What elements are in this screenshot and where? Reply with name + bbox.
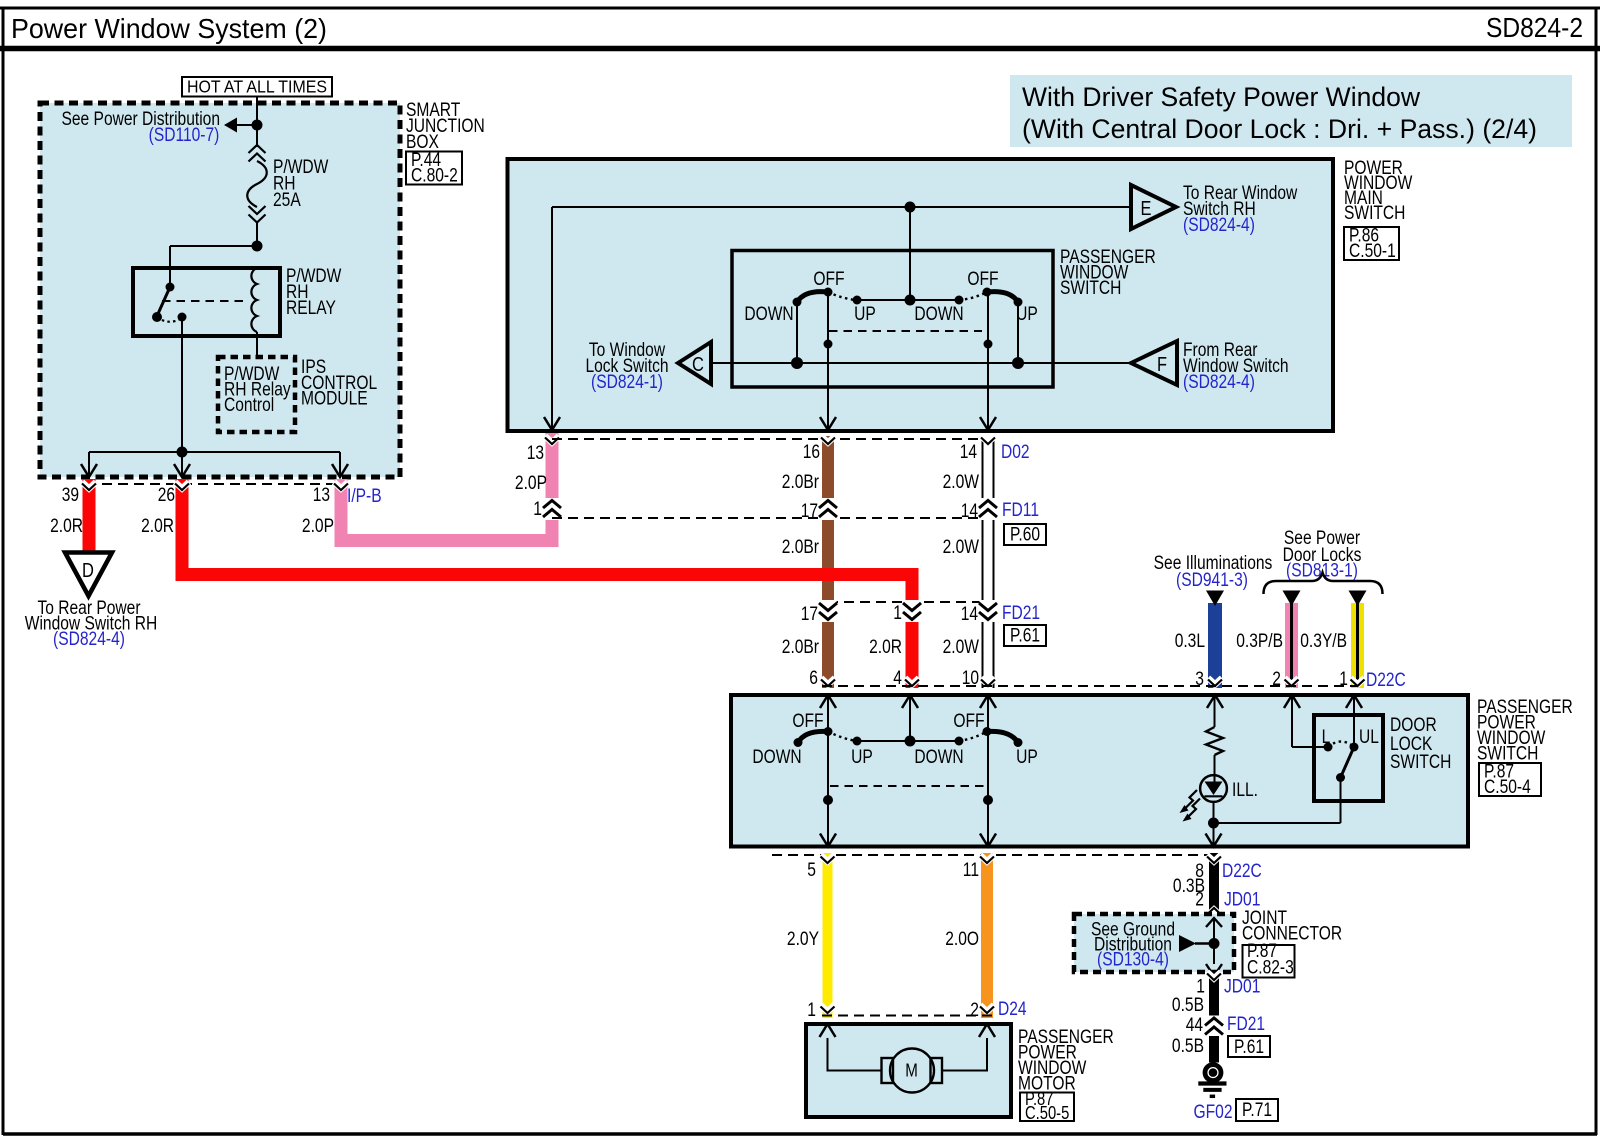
door lock switch bbox=[1314, 715, 1451, 801]
svg-text:(SD110-7): (SD110-7) bbox=[149, 125, 220, 146]
svg-text:2.0P: 2.0P bbox=[302, 516, 334, 537]
svg-text:2.0P: 2.0P bbox=[515, 473, 547, 494]
svg-text:2: 2 bbox=[1195, 890, 1204, 911]
variant note box bbox=[1010, 75, 1572, 147]
joint connector box bbox=[1074, 908, 1342, 979]
wire 0.5B (FD21 to ground) bbox=[1172, 1014, 1270, 1063]
passenger window switch (inner box) bbox=[732, 247, 1156, 387]
wire 2.0O (11 to 2) bbox=[945, 853, 994, 1018]
wire 0.3P/B door lock bbox=[1236, 591, 1300, 689]
upper switch bus bbox=[853, 295, 964, 326]
svg-text:0.5B: 0.5B bbox=[1172, 995, 1204, 1016]
lower switch linkage (dashed) bbox=[830, 785, 986, 787]
wire 0.3Y/B door unlock bbox=[1300, 591, 1366, 689]
svg-text:C.82-3: C.82-3 bbox=[1247, 958, 1294, 979]
svg-text:UL: UL bbox=[1359, 727, 1379, 748]
svg-text:2.0O: 2.0O bbox=[945, 929, 979, 950]
svg-text:1: 1 bbox=[533, 499, 542, 520]
svg-text:SWITCH: SWITCH bbox=[1060, 278, 1121, 299]
svg-text:I/P-B: I/P-B bbox=[347, 486, 382, 507]
wire pin14 internal bbox=[984, 292, 993, 429]
wire 2.0W (14/14/10) bbox=[943, 436, 997, 688]
passenger power window motor box bbox=[806, 1024, 1114, 1123]
label HOT AT ALL TIMES bbox=[182, 77, 332, 97]
svg-text:P.61: P.61 bbox=[1010, 626, 1040, 647]
pin 13 arrow (I/P-B) bbox=[332, 464, 348, 477]
svg-text:14: 14 bbox=[961, 604, 979, 625]
svg-text:6: 6 bbox=[809, 668, 818, 689]
wire door lock L to pin2 bbox=[1292, 696, 1328, 747]
pin 4 arrow bbox=[902, 695, 918, 708]
svg-text:UP: UP bbox=[1016, 747, 1038, 768]
wire pin4 internal bbox=[909, 696, 911, 741]
svg-text:SWITCH: SWITCH bbox=[1344, 203, 1405, 224]
svg-text:FD21: FD21 bbox=[1002, 603, 1040, 624]
wire 2.0Y (5 to 1) bbox=[787, 853, 835, 1018]
pin 3 arrow bbox=[1207, 695, 1223, 708]
wire 2.0R pin 39 to D bbox=[50, 479, 96, 552]
wire 0.5B (JD01 to FD21) bbox=[1172, 970, 1261, 1016]
connector I/P-B row bbox=[62, 484, 382, 507]
wire fuse to relay node bbox=[256, 222, 258, 246]
svg-text:GF02: GF02 bbox=[1194, 1102, 1233, 1123]
ground GF02 bbox=[1194, 1065, 1279, 1123]
joint connector JD01 arrow (pin2) bbox=[1206, 918, 1222, 927]
node distribution rail junction bbox=[177, 447, 188, 458]
svg-text:C.50-5: C.50-5 bbox=[1025, 1103, 1069, 1123]
wire junction to fuse bbox=[256, 125, 258, 147]
resistor (illumination) bbox=[1206, 696, 1223, 782]
svg-text:DOWN: DOWN bbox=[752, 747, 801, 768]
svg-text:10: 10 bbox=[962, 668, 979, 689]
node feed to switch bbox=[905, 202, 916, 213]
svg-text:OFF: OFF bbox=[792, 711, 823, 732]
connector D24 row bbox=[807, 999, 1027, 1021]
relay P/WDW RH bbox=[133, 266, 341, 336]
wire relay output down bbox=[181, 317, 183, 452]
svg-text:13: 13 bbox=[313, 485, 330, 506]
wire door lock UL to pin1 bbox=[1353, 696, 1355, 747]
svg-text:RELAY: RELAY bbox=[286, 298, 336, 319]
svg-text:C.50-1: C.50-1 bbox=[1349, 241, 1396, 262]
svg-text:UP: UP bbox=[1016, 304, 1038, 325]
wire feed down to switch bus bbox=[909, 207, 911, 300]
arrow to power distribution bbox=[224, 118, 257, 133]
svg-text:0.3P/B: 0.3P/B bbox=[1236, 631, 1283, 652]
connector FD21 chevron (pin44) bbox=[1207, 1016, 1221, 1037]
svg-text:With Driver Safety Power Windo: With Driver Safety Power Window bbox=[1022, 82, 1420, 112]
svg-text:(SD824-4): (SD824-4) bbox=[1183, 372, 1255, 393]
svg-text:2.0R: 2.0R bbox=[141, 516, 174, 537]
smart junction box label bbox=[406, 100, 485, 187]
svg-text:44: 44 bbox=[1186, 1015, 1204, 1036]
svg-text:2.0W: 2.0W bbox=[943, 637, 979, 658]
wire distribution rail bbox=[89, 452, 340, 476]
svg-text:(SD824-1): (SD824-1) bbox=[591, 372, 663, 393]
passenger power window switch box bbox=[731, 695, 1573, 847]
svg-text:0.5B: 0.5B bbox=[1172, 1036, 1204, 1057]
svg-text:2: 2 bbox=[1272, 669, 1281, 690]
svg-text:2.0Br: 2.0Br bbox=[782, 472, 820, 493]
svg-text:MODULE: MODULE bbox=[301, 389, 368, 410]
wire window lock line (C to F) bbox=[711, 302, 1131, 369]
connector D22C row (lower) bbox=[772, 855, 1262, 882]
lower switch left wiper (OFF/DOWN) bbox=[752, 711, 873, 768]
svg-text:25A: 25A bbox=[273, 190, 301, 211]
wire 2.0P (I/P-B 13 to main switch 13) bbox=[302, 430, 561, 541]
svg-text:OFF: OFF bbox=[813, 269, 844, 290]
connector D22C row (upper) bbox=[809, 668, 1406, 691]
svg-text:11: 11 bbox=[963, 860, 979, 881]
svg-text:16: 16 bbox=[803, 442, 820, 463]
switch linkage (dashed) bbox=[829, 330, 982, 332]
illumination lamp ILL bbox=[1180, 775, 1259, 823]
pin 5 arrow bbox=[820, 834, 836, 847]
svg-text:F: F bbox=[1157, 354, 1167, 376]
svg-text:D22C: D22C bbox=[1222, 861, 1262, 882]
ips control module (dashed) bbox=[218, 357, 377, 432]
svg-text:2.0R: 2.0R bbox=[869, 637, 902, 658]
svg-text:(SD941-3): (SD941-3) bbox=[1176, 570, 1248, 591]
note see power door locks bbox=[1283, 528, 1362, 582]
svg-text:D22C: D22C bbox=[1366, 670, 1406, 691]
svg-text:39: 39 bbox=[62, 485, 79, 506]
fuse P/WDW RH 25A bbox=[247, 145, 328, 223]
svg-text:OFF: OFF bbox=[967, 269, 998, 290]
motor M bbox=[882, 1049, 943, 1093]
svg-text:FD21: FD21 bbox=[1227, 1014, 1265, 1035]
svg-text:14: 14 bbox=[961, 501, 979, 522]
wire 0.3B (8 to JD01) bbox=[1173, 853, 1261, 916]
lower switch bus bbox=[853, 736, 964, 769]
wire 2.0Br (16/17/6) bbox=[782, 436, 837, 688]
svg-text:C.50-4: C.50-4 bbox=[1484, 777, 1531, 798]
svg-text:D: D bbox=[82, 560, 94, 582]
svg-text:0.3L: 0.3L bbox=[1175, 631, 1205, 652]
wire 2.0R pin 26 to FD21 bbox=[141, 479, 921, 688]
pin 16 arrow (main switch) bbox=[820, 417, 836, 430]
motor pin 2 arrow bbox=[979, 1024, 995, 1037]
connector FD21 row bbox=[801, 602, 1046, 647]
pin 39 arrow bbox=[81, 464, 97, 477]
svg-text:JD01: JD01 bbox=[1224, 977, 1260, 998]
svg-text:(SD130-4): (SD130-4) bbox=[1097, 950, 1169, 971]
wire lamp to pin8 bbox=[1213, 823, 1215, 845]
node power feed junction bbox=[252, 120, 263, 131]
svg-text:P.71: P.71 bbox=[1242, 1100, 1272, 1121]
off-page connector D to rear power window switch RH bbox=[25, 553, 158, 651]
svg-text:13: 13 bbox=[527, 443, 544, 464]
off-page connector C to window lock switch bbox=[585, 340, 711, 393]
node lamp output junction bbox=[1208, 818, 1219, 829]
svg-text:D02: D02 bbox=[1001, 442, 1030, 463]
pin 11 arrow bbox=[980, 834, 996, 847]
upper switch left wiper (OFF/DOWN) bbox=[744, 269, 876, 325]
svg-text:UP: UP bbox=[854, 304, 876, 325]
wire relay coil to ips module bbox=[256, 332, 258, 357]
off-page connector E to rear window switch RH bbox=[1131, 183, 1298, 236]
wire pin10-pin11 internal bbox=[983, 696, 993, 845]
svg-text:1: 1 bbox=[1339, 669, 1348, 690]
pin 26 arrow bbox=[174, 464, 190, 477]
svg-text:SD824-2: SD824-2 bbox=[1486, 12, 1583, 43]
pin 2 arrow bbox=[1284, 695, 1300, 708]
svg-text:2.0W: 2.0W bbox=[943, 537, 979, 558]
node fuse output bbox=[252, 241, 263, 252]
off-page connector F from rear window switch bbox=[1131, 340, 1289, 393]
wire inside joint connector bbox=[1213, 918, 1215, 964]
svg-text:2.0Y: 2.0Y bbox=[787, 929, 819, 950]
svg-text:SWITCH: SWITCH bbox=[1390, 752, 1451, 773]
svg-text:1: 1 bbox=[893, 603, 902, 624]
svg-text:4: 4 bbox=[893, 668, 902, 689]
svg-text:2.0Br: 2.0Br bbox=[782, 637, 820, 658]
connector FD11 row bbox=[533, 499, 1046, 546]
svg-text:ILL.: ILL. bbox=[1232, 780, 1258, 801]
lower switch right wiper (OFF/UP) bbox=[953, 711, 1037, 768]
svg-text:DOOR: DOOR bbox=[1390, 715, 1437, 736]
wire pin6-pin5 internal bbox=[823, 696, 833, 845]
svg-text:17: 17 bbox=[801, 604, 818, 625]
svg-text:2.0Br: 2.0Br bbox=[782, 537, 820, 558]
wire from hot feed down bbox=[256, 97, 258, 126]
connector D02 row bbox=[527, 439, 1030, 464]
svg-text:(With Central Door Lock : Dri.: (With Central Door Lock : Dri. + Pass.) … bbox=[1022, 114, 1537, 144]
svg-text:M: M bbox=[905, 1060, 918, 1081]
svg-text:17: 17 bbox=[801, 501, 818, 522]
pin 13 arrow (main switch) bbox=[544, 417, 560, 430]
svg-text:DOWN: DOWN bbox=[914, 304, 963, 325]
svg-text:0.3Y/B: 0.3Y/B bbox=[1300, 631, 1347, 652]
svg-text:DOWN: DOWN bbox=[914, 747, 963, 768]
power window main switch box bbox=[508, 158, 1413, 431]
svg-text:5: 5 bbox=[807, 860, 816, 881]
svg-text:P.60: P.60 bbox=[1010, 525, 1040, 546]
wire pin16 internal bbox=[824, 292, 833, 429]
pin 14 arrow (main switch) bbox=[980, 417, 996, 430]
wire main switch feed (pin13 to E) bbox=[552, 207, 1131, 430]
see power distribution note bbox=[62, 109, 221, 146]
note see illuminations bbox=[1154, 553, 1273, 591]
svg-text:E: E bbox=[1141, 198, 1152, 220]
svg-text:1: 1 bbox=[807, 1000, 816, 1021]
svg-text:(SD824-4): (SD824-4) bbox=[1183, 215, 1255, 236]
svg-text:DOWN: DOWN bbox=[744, 304, 793, 325]
pin 6 arrow bbox=[820, 695, 836, 708]
svg-text:2.0W: 2.0W bbox=[943, 472, 979, 493]
motor internal wires bbox=[828, 1038, 988, 1071]
svg-text:FD11: FD11 bbox=[1002, 500, 1039, 521]
joint connector JD01 arrow (pin1) bbox=[1206, 964, 1222, 976]
smart junction box (dashed) bbox=[40, 103, 400, 477]
svg-text:D24: D24 bbox=[998, 999, 1027, 1020]
svg-text:OFF: OFF bbox=[953, 711, 984, 732]
pin 10 arrow bbox=[980, 695, 996, 708]
svg-text:26: 26 bbox=[158, 485, 175, 506]
svg-text:14: 14 bbox=[960, 442, 978, 463]
svg-text:C: C bbox=[692, 354, 704, 376]
svg-text:3: 3 bbox=[1195, 669, 1204, 690]
svg-text:HOT AT ALL TIMES: HOT AT ALL TIMES bbox=[187, 77, 327, 97]
svg-text:(SD824-4): (SD824-4) bbox=[53, 629, 125, 650]
pin 8 arrow bbox=[1206, 834, 1222, 847]
svg-text:C.80-2: C.80-2 bbox=[411, 166, 458, 187]
svg-text:P.61: P.61 bbox=[1234, 1037, 1264, 1058]
svg-text:UP: UP bbox=[851, 747, 873, 768]
upper switch right wiper (OFF/UP) bbox=[959, 269, 1038, 325]
wire node to relay contact bbox=[170, 246, 257, 287]
pin 1 arrow bbox=[1346, 695, 1362, 708]
wire 0.3L illumination feed bbox=[1175, 591, 1224, 689]
motor pin 1 arrow bbox=[820, 1024, 836, 1037]
wire lamp junction to door lock common bbox=[1214, 778, 1341, 823]
svg-text:2.0R: 2.0R bbox=[50, 516, 83, 537]
brace over door lock wires bbox=[1264, 573, 1383, 595]
svg-text:Control: Control bbox=[224, 395, 274, 416]
arrow from ground distribution bbox=[1179, 935, 1214, 952]
svg-text:Power Window System (2): Power Window System (2) bbox=[11, 13, 327, 44]
svg-text:2: 2 bbox=[970, 1000, 979, 1021]
node joint connector junction bbox=[1209, 938, 1220, 949]
